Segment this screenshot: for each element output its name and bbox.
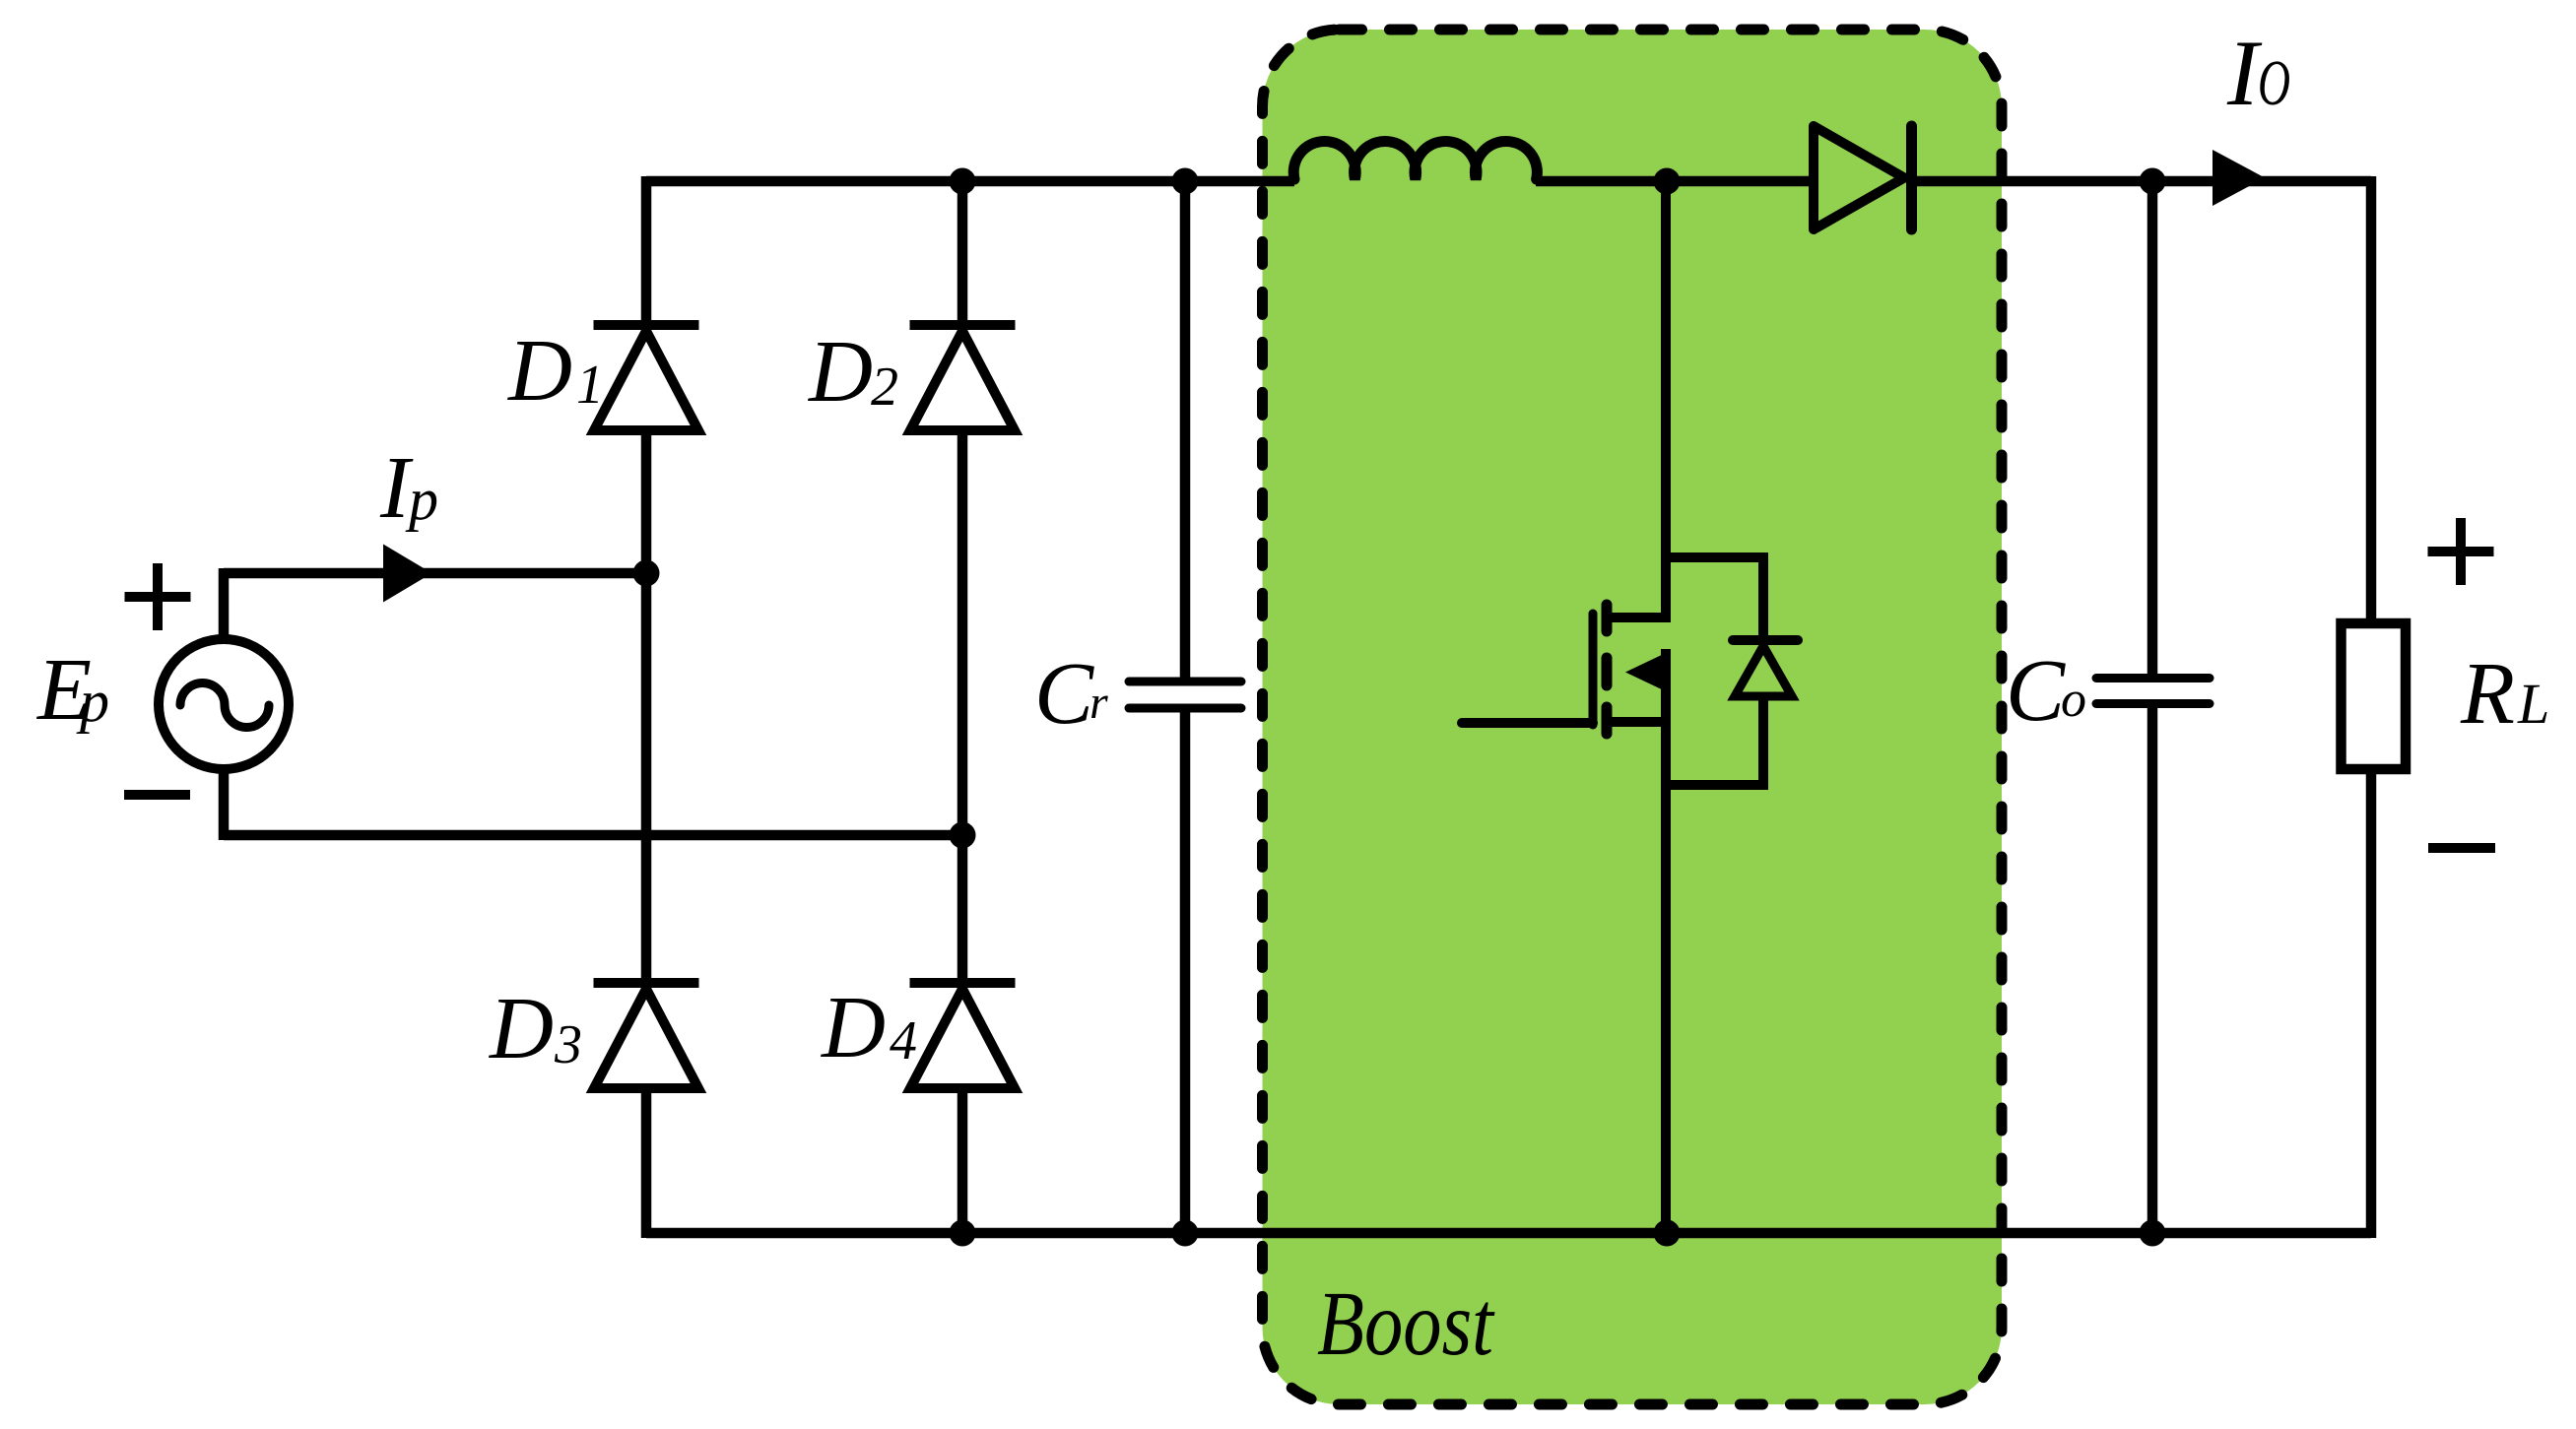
svg-text:C: C (1034, 645, 1094, 743)
svg-text:L: L (2517, 672, 2549, 736)
svg-text:D: D (807, 323, 873, 421)
svg-text:C: C (2006, 642, 2066, 740)
svg-text:D: D (506, 322, 572, 420)
svg-text:p: p (76, 669, 109, 734)
svg-text:O: O (2258, 47, 2290, 119)
svg-text:2: 2 (871, 357, 898, 418)
svg-text:Boost: Boost (1317, 1273, 1495, 1375)
svg-text:D: D (488, 980, 554, 1077)
svg-text:p: p (405, 467, 438, 532)
svg-text:r: r (1090, 677, 1108, 729)
svg-text:1: 1 (576, 355, 604, 416)
svg-text:R: R (2460, 645, 2515, 743)
svg-text:o: o (2061, 672, 2086, 728)
svg-text:4: 4 (890, 1010, 917, 1072)
svg-text:D: D (820, 979, 886, 1076)
svg-text:3: 3 (554, 1014, 582, 1075)
